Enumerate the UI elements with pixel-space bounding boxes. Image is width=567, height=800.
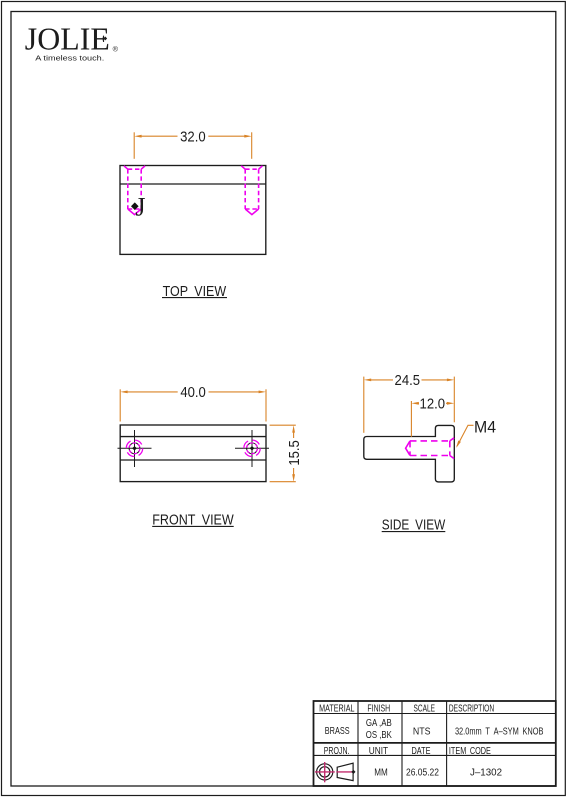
M4 callout leader: [457, 425, 474, 446]
svg-text:®: ®: [113, 44, 119, 53]
top view body outline: [120, 166, 266, 255]
front view edge line upper: [120, 436, 266, 438]
dimension 32.0: [134, 132, 252, 159]
svg-text:ITEM CODE: ITEM CODE: [449, 746, 491, 757]
svg-text:M4: M4: [474, 418, 496, 436]
projection symbol crosshair: [315, 771, 335, 773]
svg-text:DATE: DATE: [412, 746, 431, 757]
svg-text:J–1302: J–1302: [470, 767, 502, 778]
svg-text:PROJN.: PROJN.: [324, 746, 350, 757]
dimension 12.0: [411, 401, 448, 437]
svg-text:32.0: 32.0: [180, 129, 206, 145]
svg-text:15.5: 15.5: [287, 440, 303, 466]
svg-text:BRASS: BRASS: [325, 726, 350, 737]
svg-text:GA ,AB: GA ,AB: [366, 718, 392, 729]
hole right: circles: [247, 443, 258, 454]
svg-text:JOLIE: JOLIE: [25, 21, 110, 56]
svg-text:32.0mm T A–SYM KNOB: 32.0mm T A–SYM KNOB: [455, 727, 544, 738]
svg-text:OS ,BK: OS ,BK: [366, 730, 392, 741]
top view edge line: [120, 183, 266, 185]
svg-text:SCALE: SCALE: [414, 703, 436, 714]
svg-text:40.0: 40.0: [180, 385, 206, 401]
logo JOLIE: [25, 21, 119, 56]
front view body outline: [120, 425, 266, 482]
tapped hole (left, hidden): [124, 166, 145, 215]
diamond mark: [131, 202, 139, 210]
svg-text:MM: MM: [374, 767, 388, 778]
svg-text:FINISH: FINISH: [367, 703, 390, 714]
svg-text:A timeless touch.: A timeless touch.: [35, 54, 104, 63]
hole right: centerlines: [235, 430, 269, 467]
title block row lines: [314, 713, 556, 715]
svg-text:NTS: NTS: [413, 727, 431, 738]
tapped hole (right, hidden): [241, 166, 262, 215]
M4 tapped hole (hidden): [406, 438, 455, 459]
projection symbol circles: [317, 764, 333, 780]
dimension 15.5: [270, 425, 296, 482]
svg-text:26.05.22: 26.05.22: [406, 767, 439, 778]
hole left: circles: [129, 443, 140, 454]
svg-text:MATERIAL: MATERIAL: [319, 703, 355, 714]
projection symbol cone centerline: [336, 771, 354, 773]
title block frame: [314, 701, 556, 786]
svg-text:12.0: 12.0: [420, 396, 446, 412]
hole left: centerlines: [118, 430, 152, 467]
dimension 24.5: [364, 377, 455, 433]
side view body outline: [364, 425, 455, 482]
title block column lines: [358, 701, 447, 786]
front view edge line lower: [120, 459, 266, 461]
svg-text:UNIT: UNIT: [369, 746, 388, 757]
svg-text:DESCRIPTION: DESCRIPTION: [449, 703, 494, 714]
svg-text:24.5: 24.5: [395, 373, 421, 389]
projection symbol cone: [337, 763, 353, 780]
dimension 40.0: [120, 389, 266, 421]
